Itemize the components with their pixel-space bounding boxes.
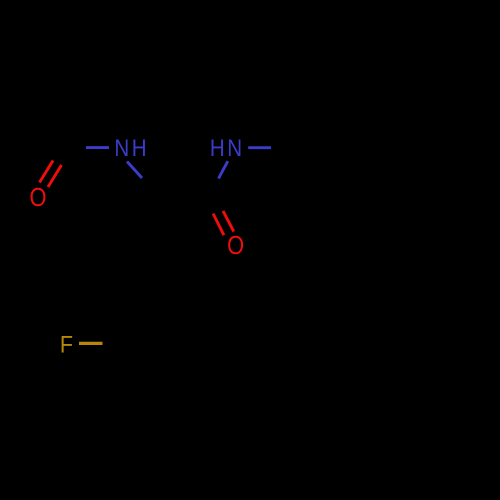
ring right cage (295, 86, 422, 390)
wire N to central C (141, 176, 163, 193)
wire central C to amide C (163, 193, 210, 195)
svg-text:O: O (30, 183, 47, 212)
svg-text:F: F (60, 330, 73, 357)
svg-text:N: N (227, 134, 242, 161)
wire formyl C to O midpoint (57, 149, 75, 171)
svg-text:H: H (132, 134, 147, 161)
wire amide C=O upper halves (205, 195, 213, 213)
svg-text:H: H (210, 134, 225, 161)
ring fluorophenyl (112, 193, 215, 390)
wire HN to ring C1 half (271, 148, 295, 149)
blue half-bond: formyl C to NH (86, 146, 109, 149)
wire formyl C to N midpoint (75, 148, 98, 149)
label HN (amide nitrogen right) (210, 134, 242, 161)
label NH (amide nitrogen left) (114, 134, 146, 161)
blue half-bond: HN down-left to amide C (219, 161, 228, 178)
blue half-bond: HN right to cage C1 (248, 146, 271, 149)
amide C=O red half (double bond, two strokes) (213, 211, 234, 235)
svg-text:O: O (227, 231, 244, 260)
blue half-bond: NH down to central C (127, 162, 142, 179)
gold half-bond: F to ring (79, 342, 103, 345)
formyl C=O red half (double bond, two strokes) (40, 161, 62, 188)
svg-text:N: N (114, 134, 129, 161)
carbon skeleton (black, matches raw RGB of reference) (57, 86, 422, 390)
